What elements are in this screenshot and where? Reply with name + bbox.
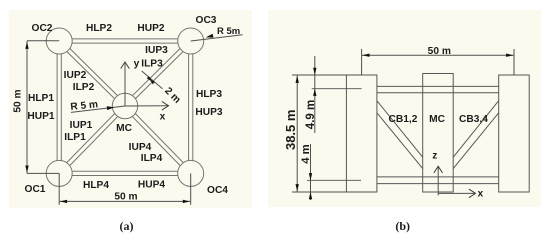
axis y at MC: shaft — [124, 64, 126, 107]
dimension 2 m: upper arrowhead — [149, 79, 155, 85]
svg-text:CB3,4: CB3,4 — [459, 114, 488, 125]
svg-text:HLP4: HLP4 — [83, 180, 109, 191]
axis x (b): shaft — [438, 192, 474, 194]
svg-text:IUP1: IUP1 — [70, 120, 93, 131]
deck upper edge — [377, 85, 499, 87]
deck lower edge — [377, 92, 499, 94]
dimension 50 m (b): dimension line — [362, 54, 514, 56]
dimension 4 m: lower arrowhead — [309, 192, 312, 199]
centre column MC (b) — [423, 74, 454, 193]
dimension 50 m (b): right arrowhead — [506, 54, 513, 57]
brace IUP3/ILP3 (OC3-MC) — [124, 40, 190, 105]
svg-text:R 5m: R 5m — [217, 26, 240, 37]
dimension 50 m bottom: extension line left — [58, 173, 60, 204]
svg-text:OC4: OC4 — [207, 185, 228, 196]
dimension 50 m left: top arrowhead — [25, 42, 28, 49]
svg-text:OC3: OC3 — [196, 15, 217, 26]
member HLP2/HUP2 top pontoon (OC2-OC3) — [59, 42, 191, 44]
dimension 4 m: vertical line — [310, 144, 312, 200]
dimension 50 m (b): right extension line — [513, 49, 515, 75]
dimension 4 m: extension line — [307, 179, 361, 181]
dimension 50 m left: extension line bottom (into OC1 centre) — [27, 172, 59, 174]
svg-text:IUP2: IUP2 — [64, 70, 87, 81]
axis z (b): open arrowhead — [434, 166, 443, 173]
svg-text:OC2: OC2 — [32, 23, 53, 34]
dimension 4.9 m: lower arrowhead — [313, 89, 316, 96]
outer column left (b) — [346, 75, 377, 192]
brace IUP1/ILP1 (OC1-MC) — [61, 108, 127, 175]
brace CB3,4 lower line — [453, 113, 499, 169]
dimension 50 m left: dimension line — [26, 41, 28, 173]
leader R 5 m to MC: arrowhead — [107, 106, 115, 110]
column OC4 — [178, 160, 204, 186]
leader R 5 m to MC: leader line — [71, 106, 125, 112]
svg-text:y: y — [134, 59, 140, 70]
panel (b) background — [268, 10, 541, 207]
dimension 50 m left: bottom arrowhead — [25, 166, 28, 173]
axis x (b): open arrowhead — [469, 189, 476, 198]
member HLP3/HUP3 right pontoon (OC3-OC4) — [188, 41, 190, 173]
svg-text:38.5 m: 38.5 m — [283, 110, 298, 150]
dimension 4 m: upper arrowhead — [309, 173, 312, 180]
svg-text:50 m: 50 m — [114, 192, 137, 203]
member HLP1/HUP1 left pontoon (OC2-OC1) — [56, 41, 58, 173]
svg-text:CB1,2: CB1,2 — [389, 114, 418, 125]
svg-text:HLP3: HLP3 — [196, 89, 222, 100]
dimension 50 m (b): left extension line — [361, 49, 363, 75]
svg-text:HUP1: HUP1 — [27, 111, 55, 122]
brace IUP4/ILP4 (OC4-MC) — [127, 105, 193, 172]
pontoon upper edge — [377, 176, 499, 178]
svg-text:ILP4: ILP4 — [141, 153, 163, 164]
dimension 4.9 m: extension line — [312, 88, 362, 90]
dimension 4.9 m: vertical line — [314, 56, 316, 133]
svg-text:50 m: 50 m — [12, 89, 23, 112]
dimension 50 m bottom: extension line right — [190, 173, 192, 204]
svg-text:x: x — [477, 188, 483, 199]
axis x at MC: open arrowhead — [162, 102, 169, 111]
svg-text:x: x — [160, 112, 166, 123]
column MC (centre) — [112, 93, 137, 118]
dimension 50 m bottom: right arrowhead — [183, 200, 190, 203]
axis x at MC: shaft — [125, 105, 168, 107]
svg-text:ILP3: ILP3 — [141, 59, 163, 70]
brace CB1,2 lower line — [377, 113, 423, 169]
svg-text:HLP1: HLP1 — [28, 93, 54, 104]
dimension 4.9 m: upper arrowhead — [313, 68, 316, 75]
outer column right (b) — [499, 75, 530, 192]
column OC1 — [46, 160, 72, 186]
member HLP4/HUP4 bottom pontoon (OC1-OC4) — [59, 175, 191, 177]
svg-text:ILP1: ILP1 — [64, 132, 86, 143]
svg-text:(b): (b) — [395, 219, 410, 233]
leader R 5m to OC3: arrowhead — [206, 34, 214, 38]
dimension 2 m: cross line — [142, 71, 163, 89]
dimension 38.5 m: dimension line — [296, 75, 298, 192]
dimension 38.5 m: top arrowhead — [296, 76, 299, 83]
svg-text:4.9 m: 4.9 m — [305, 100, 317, 129]
axis y at MC: open arrowhead — [121, 62, 130, 69]
brace CB3,4 upper line — [453, 101, 499, 158]
svg-text:IUP4: IUP4 — [129, 142, 152, 153]
svg-text:HUP4: HUP4 — [138, 180, 166, 191]
svg-text:HUP3: HUP3 — [195, 107, 223, 118]
dimension 50 m bottom: dimension line — [59, 200, 191, 202]
dimension 50 m bottom: left arrowhead — [60, 200, 67, 203]
dimension 38.5 m: bottom arrowhead — [296, 184, 299, 191]
svg-text:4 m: 4 m — [300, 144, 312, 163]
dimension 38.5 m: bottom extension line — [292, 191, 377, 193]
brace IUP2/ILP2 (OC2-MC) — [58, 43, 124, 108]
panel (a) background — [9, 10, 252, 208]
column OC2 — [46, 28, 72, 54]
svg-text:ILP2: ILP2 — [73, 82, 95, 93]
svg-text:z: z — [432, 151, 437, 162]
pontoon lower edge — [377, 183, 499, 185]
brace CB1,2 upper line — [377, 101, 423, 158]
svg-text:50 m: 50 m — [428, 46, 451, 57]
svg-text:MC: MC — [429, 114, 445, 125]
leader R 5m to OC3: leader line — [191, 35, 243, 41]
svg-text:IUP3: IUP3 — [145, 45, 168, 56]
dimension 38.5 m: top extension line — [292, 74, 362, 76]
svg-text:OC1: OC1 — [25, 184, 46, 195]
dimension 50 m (b): left arrowhead — [362, 54, 369, 57]
svg-text:HLP2: HLP2 — [86, 23, 112, 34]
svg-text:(a): (a) — [120, 219, 134, 233]
dimension 2 m: lower arrowhead — [147, 76, 153, 82]
svg-text:MC: MC — [116, 123, 132, 134]
axis z (b): shaft — [437, 167, 439, 196]
column OC3 — [178, 28, 204, 54]
dimension 50 m left: extension line top (into OC2 centre) — [27, 40, 59, 42]
svg-text:HUP2: HUP2 — [137, 23, 165, 34]
